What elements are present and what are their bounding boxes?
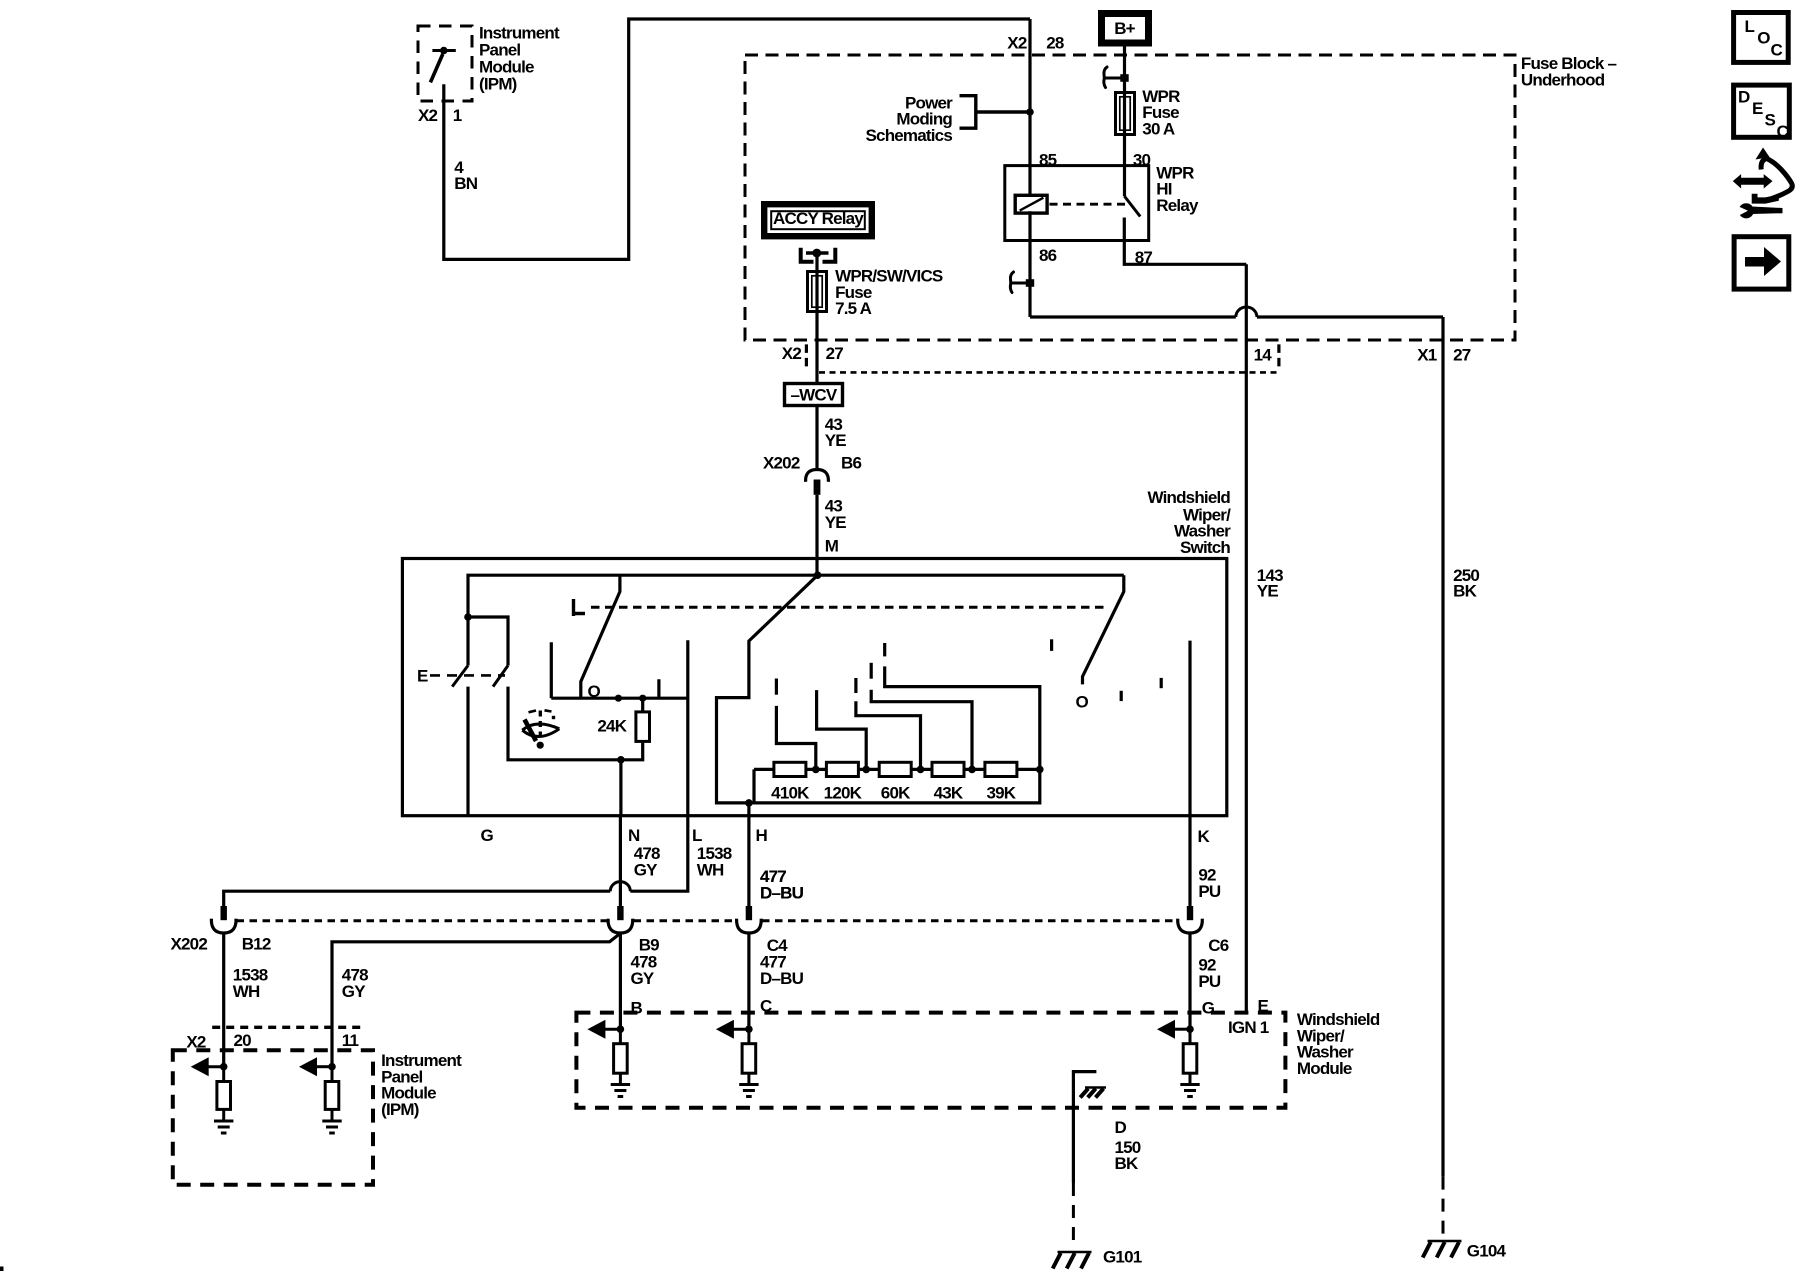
ground G104: [1428, 1240, 1462, 1243]
svg-text:B6: B6: [841, 453, 861, 472]
node H rail dot: [745, 799, 753, 807]
svg-text:S: S: [1765, 111, 1776, 130]
92 PU wire: [1188, 933, 1191, 1029]
svg-text:39K: 39K: [987, 783, 1017, 802]
svg-text:L: L: [692, 826, 702, 845]
svg-text:L: L: [1745, 17, 1755, 36]
common bus: [551, 642, 688, 698]
N wire down: [619, 816, 622, 907]
svg-text:B12: B12: [242, 934, 271, 953]
resistor 120K: [826, 762, 858, 776]
svg-text:D: D: [1738, 88, 1750, 107]
svg-text:O: O: [1757, 28, 1770, 47]
icon DESC box: [1734, 85, 1790, 137]
IPM internal switch contact: [432, 49, 455, 52]
svg-text:YE: YE: [1257, 581, 1279, 600]
resistor 60K: [879, 762, 911, 776]
svg-text:X202: X202: [763, 453, 800, 472]
relay coil: [1015, 195, 1047, 213]
svg-text:YE: YE: [825, 431, 847, 450]
hop over 143 YE wire: [1236, 307, 1257, 317]
svg-text:X2: X2: [418, 106, 438, 125]
wire 43 YE lower: [815, 495, 818, 575]
resistor 410K: [774, 762, 806, 776]
svg-text:GY: GY: [631, 969, 655, 988]
L wire to B12: [224, 891, 611, 906]
svg-text:120K: 120K: [824, 783, 863, 802]
terminal clip above WPR fuse: [1104, 67, 1107, 88]
svg-text:GY: GY: [342, 982, 366, 1001]
wire through WPR fuse: [1123, 92, 1126, 136]
svg-text:ACCY Relay: ACCY Relay: [773, 209, 864, 228]
svg-text:H: H: [756, 826, 768, 845]
svg-text:O: O: [1076, 693, 1089, 712]
svg-text:D–BU: D–BU: [760, 969, 804, 988]
connector X202 B12: [221, 906, 227, 920]
resistor 43K: [932, 762, 964, 776]
icon navigate wrench doodle: [1733, 174, 1773, 188]
resistor 39K: [985, 762, 1017, 776]
svg-text:27: 27: [826, 344, 844, 363]
svg-text:30 A: 30 A: [1142, 120, 1175, 139]
svg-text:G: G: [481, 826, 494, 845]
wire B+ down: [1123, 45, 1126, 91]
svg-text:E: E: [417, 666, 428, 685]
wire 86 down: [1030, 211, 1443, 317]
svg-text:BN: BN: [454, 174, 477, 193]
wire relay 85 feed: [1028, 19, 1031, 197]
chain junction dot: [968, 766, 976, 774]
switch linkage: [591, 606, 1108, 609]
fuse holder clip below ACCY relay: [801, 248, 836, 262]
svg-text:24K: 24K: [597, 717, 627, 736]
washer pump icon: [522, 724, 559, 737]
fuse WPR 30 A: [1116, 93, 1135, 135]
svg-text:60K: 60K: [881, 783, 911, 802]
wire into 7.5A fuse: [815, 253, 818, 382]
svg-text:43K: 43K: [934, 783, 964, 802]
connector tick 14: [1277, 344, 1280, 366]
wire 87: [1124, 218, 1246, 265]
svg-text:YE: YE: [825, 513, 847, 532]
svg-text:Switch: Switch: [1180, 538, 1230, 557]
washer right pole lower: [508, 687, 621, 760]
fuse block underhood dashed box: [745, 55, 1515, 340]
1538 WH wire: [222, 933, 225, 1066]
K wire down: [1188, 816, 1191, 907]
E linkage dashes: [430, 674, 505, 677]
svg-text:C: C: [1777, 122, 1789, 141]
bottom rail: [749, 769, 1040, 803]
instrument panel module (IPM) dashed box: [418, 26, 472, 101]
svg-text:Relay: Relay: [1156, 196, 1199, 215]
wire 250 BK dashed tail: [1442, 1177, 1445, 1238]
contact dash P3: [854, 678, 857, 693]
N wire inside: [619, 760, 622, 816]
478 GY wire: [619, 933, 622, 1029]
wire through 7.5A fuse: [815, 271, 818, 312]
svg-text:PU: PU: [1198, 972, 1221, 991]
dotted connector line: [819, 371, 1277, 374]
module internal chassis ground: [1085, 1086, 1106, 1089]
L wire inside: [686, 640, 689, 815]
svg-text:X2: X2: [1007, 33, 1027, 52]
IPM input 11 assembly: [328, 1063, 336, 1071]
svg-text:28: 28: [1046, 33, 1064, 52]
battery feed B+ box: [1102, 14, 1149, 44]
svg-text:X1: X1: [1417, 345, 1437, 364]
wiper-to-ladder wire: [717, 575, 818, 803]
svg-text:27: 27: [1453, 345, 1471, 364]
instrument panel module (IPM) bottom dashed box: [173, 1050, 373, 1185]
module input G assembly: [1186, 1025, 1194, 1033]
ACCY Relay box: [764, 204, 872, 236]
svg-text:C: C: [1771, 41, 1783, 60]
windshield wiper/washer switch box: [402, 559, 1226, 816]
riser P3: [856, 701, 921, 769]
svg-text:BK: BK: [1453, 581, 1477, 600]
left wiper arm: [581, 575, 620, 698]
wire 4 BN: [444, 19, 1030, 259]
riser P5: [885, 666, 1040, 769]
right arm: [1083, 575, 1124, 684]
relay switch arm: [1124, 196, 1140, 217]
connector C6: [1187, 906, 1193, 920]
washer right pole upper: [468, 617, 508, 666]
windshield wiper/washer module dashed box: [576, 1013, 1285, 1108]
svg-text:G101: G101: [1103, 1248, 1142, 1267]
chain line: [754, 769, 1040, 803]
terminal clip on relay 86 wire: [1010, 272, 1013, 293]
H wire down: [747, 816, 750, 907]
X2 connector bar: [212, 1026, 363, 1029]
svg-text:WH: WH: [697, 861, 724, 880]
chain junction dot: [917, 766, 925, 774]
svg-text:–WCV: –WCV: [791, 386, 838, 405]
chain junction dot: [862, 766, 870, 774]
node left bus junction dot: [464, 613, 472, 621]
X202 dashed line seg1: [237, 919, 608, 922]
svg-text:GY: GY: [634, 861, 658, 880]
svg-text:X2: X2: [782, 344, 802, 363]
svg-text:X202: X202: [170, 934, 207, 953]
svg-text:WH: WH: [233, 982, 260, 1001]
svg-text:D: D: [1115, 1118, 1127, 1137]
relay linkage: [1050, 203, 1128, 206]
D bracket: [1073, 1072, 1096, 1183]
wire fuse to relay 30: [1123, 136, 1126, 196]
K wire inside: [1188, 641, 1191, 816]
svg-text:(IPM): (IPM): [479, 74, 517, 93]
svg-text:Module: Module: [1297, 1059, 1352, 1078]
svg-text:14: 14: [1254, 345, 1273, 364]
svg-text:7.5 A: 7.5 A: [835, 299, 872, 318]
relay WPR HI box: [1005, 166, 1149, 241]
wire 250 BK: [1441, 317, 1444, 1177]
svg-text:Underhood: Underhood: [1521, 70, 1605, 89]
24K leads: [621, 698, 643, 760]
svg-text:Schematics: Schematics: [866, 126, 953, 145]
svg-text:K: K: [1198, 827, 1211, 846]
contact dash P5: [883, 643, 886, 656]
H wire inside: [747, 803, 750, 816]
477 D-BU wire: [747, 933, 750, 1029]
inner bus: [468, 575, 1124, 665]
chain junction dot: [812, 766, 820, 774]
WCV box: [785, 384, 843, 406]
X202 dashed line seg3: [762, 919, 1177, 922]
150 BK dashed: [1072, 1183, 1075, 1246]
wire 143 YE: [1245, 264, 1248, 1012]
riser P4: [871, 690, 972, 770]
IPM input 20 assembly: [220, 1063, 228, 1071]
node M junction dot: [814, 571, 822, 579]
ground G101: [1058, 1251, 1092, 1254]
svg-text:C6: C6: [1208, 936, 1228, 955]
svg-text:(IPM): (IPM): [381, 1100, 419, 1119]
module input C assembly: [745, 1025, 753, 1033]
svg-text:86: 86: [1039, 246, 1057, 265]
washer switch slashes (E): [452, 666, 508, 687]
svg-text:G104: G104: [1467, 1241, 1507, 1260]
power moding schematics tap bracket: [960, 96, 1031, 129]
connector tick X2-27: [805, 344, 808, 366]
icon LOC box: [1734, 13, 1789, 63]
contact dash a: [1050, 639, 1053, 651]
svg-text:11: 11: [342, 1031, 359, 1050]
node N junction dot: [617, 756, 625, 764]
connector B9: [617, 906, 623, 920]
connector C4: [746, 906, 752, 920]
svg-text:N: N: [628, 826, 640, 845]
svg-text:20: 20: [234, 1031, 252, 1050]
fuse WPR/SW/VICS 7.5 A: [808, 272, 827, 312]
page corner mark: [0, 1267, 4, 1272]
svg-text:M: M: [825, 537, 839, 556]
washer left pole lower to G: [466, 687, 469, 816]
svg-text:PU: PU: [1198, 882, 1221, 901]
connector X202 B6: [806, 470, 829, 482]
svg-text:D–BU: D–BU: [760, 884, 804, 903]
contact dash b: [1120, 691, 1123, 701]
svg-text:E: E: [1752, 99, 1763, 118]
wire 43 YE upper: [815, 406, 818, 469]
svg-text:1: 1: [453, 106, 462, 125]
X202 dashed line seg2: [634, 919, 736, 922]
module input B assembly: [617, 1025, 625, 1033]
contact dash P4: [870, 663, 873, 679]
icon arrow box: [1734, 237, 1789, 289]
478 GY branch: [332, 933, 620, 1066]
svg-text:B+: B+: [1114, 19, 1135, 38]
riser P2: [817, 690, 867, 769]
linkage end mark: [574, 599, 586, 616]
L wire down: [630, 816, 688, 892]
svg-text:IGN 1: IGN 1: [1228, 1018, 1269, 1037]
contact dash P1: [775, 679, 778, 695]
contact dash c: [1160, 678, 1163, 688]
chain junction dot: [1036, 766, 1044, 774]
svg-text:BK: BK: [1115, 1154, 1139, 1173]
svg-text:410K: 410K: [771, 783, 810, 802]
riser P1: [776, 706, 815, 770]
svg-text:Windshield: Windshield: [1147, 488, 1230, 507]
